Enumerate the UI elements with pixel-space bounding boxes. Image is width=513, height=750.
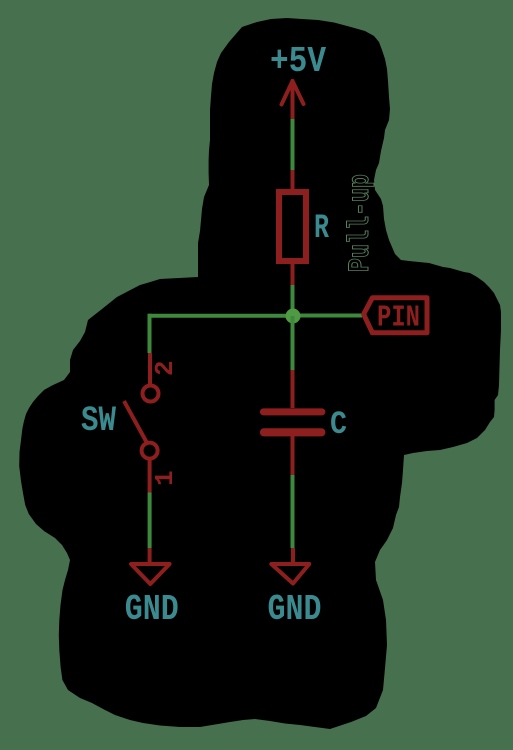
ground left pin <box>148 548 152 564</box>
capacitor C pin top <box>291 370 295 408</box>
power symbol +5V arrow <box>282 81 304 119</box>
switch contact 2 circle <box>143 386 159 402</box>
switch SW pin 2 <box>148 353 152 385</box>
svg-text:2: 2 <box>150 360 180 376</box>
svg-text:Pull-up: Pull-up <box>344 174 378 272</box>
wire junction to left corner <box>150 314 293 318</box>
svg-text:GND: GND <box>268 589 322 630</box>
switch contact 1 circle <box>142 443 158 459</box>
svg-text:R: R <box>314 210 329 248</box>
wire junction to capacitor <box>291 316 295 370</box>
svg-text:1: 1 <box>150 470 180 486</box>
resistor R pin top <box>291 170 295 192</box>
ground right symbol <box>271 564 309 584</box>
svg-text:PIN: PIN <box>377 301 420 336</box>
ground left symbol <box>131 564 170 584</box>
wire resistor to junction <box>291 285 295 316</box>
svg-text:+5V: +5V <box>270 41 326 82</box>
junction node <box>286 309 301 324</box>
wire junction to PIN label <box>293 314 363 318</box>
global label PIN <box>364 298 427 333</box>
ground right pin <box>291 548 295 564</box>
wire capacitor to GND <box>291 475 295 548</box>
wire corner down to switch <box>148 314 152 353</box>
capacitor C bottom plate <box>260 428 326 436</box>
svg-text:C: C <box>330 406 347 443</box>
capacitor C pin bottom <box>291 436 295 475</box>
switch lever <box>124 401 147 443</box>
switch pin 1 stub <box>148 459 152 493</box>
wire from +5V to resistor <box>291 119 295 173</box>
resistor R body <box>279 192 306 261</box>
svg-text:SW: SW <box>81 401 116 441</box>
svg-text:GND: GND <box>125 589 179 630</box>
wire switch to GND <box>148 493 152 549</box>
resistor R pin bottom <box>291 261 295 285</box>
capacitor C top plate <box>260 408 326 415</box>
